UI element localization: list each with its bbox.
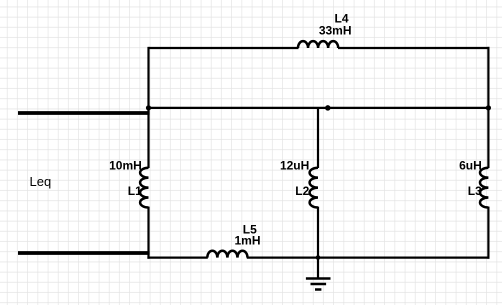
svg-text:Leq: Leq <box>30 174 52 189</box>
port terminal lead bottom (thick) <box>18 251 150 255</box>
wire top horizontal left segment <box>149 47 299 49</box>
wire middle horizontal <box>149 107 490 109</box>
inductor L1 coil <box>140 168 148 208</box>
svg-text:1mH: 1mH <box>234 234 260 248</box>
wire middle vertical lower segment <box>317 207 319 258</box>
port terminal lead top (thick) <box>18 111 150 115</box>
wire top horizontal right segment <box>338 47 490 49</box>
node junction at right vertical <box>486 105 491 110</box>
node junction at left port <box>146 105 151 110</box>
wire bottom horizontal left segment <box>147 257 207 259</box>
inductor L2 coil <box>310 168 318 208</box>
wire bottom horizontal right segment <box>247 257 490 259</box>
wire right vertical upper segment <box>487 47 489 168</box>
wire middle vertical upper segment (L2 branch) <box>317 108 319 168</box>
svg-text:L3: L3 <box>468 184 482 198</box>
svg-text:L1: L1 <box>128 184 142 198</box>
node junction on middle wire right of L2 <box>325 105 331 111</box>
svg-text:10mH: 10mH <box>109 159 142 173</box>
wire right vertical lower segment <box>487 207 489 259</box>
svg-text:12uH: 12uH <box>280 159 309 173</box>
wire left vertical lower segment <box>147 207 149 259</box>
inductor L4 coil <box>298 41 338 48</box>
node junction at bottom wire / ground <box>316 255 321 260</box>
ground <box>306 258 331 290</box>
wire left vertical upper segment <box>147 47 149 168</box>
inductor L5 coil <box>207 251 247 258</box>
svg-text:L2: L2 <box>295 184 309 198</box>
inductor L3 coil <box>480 168 488 208</box>
svg-text:6uH: 6uH <box>459 159 482 173</box>
svg-text:33mH: 33mH <box>319 24 352 38</box>
